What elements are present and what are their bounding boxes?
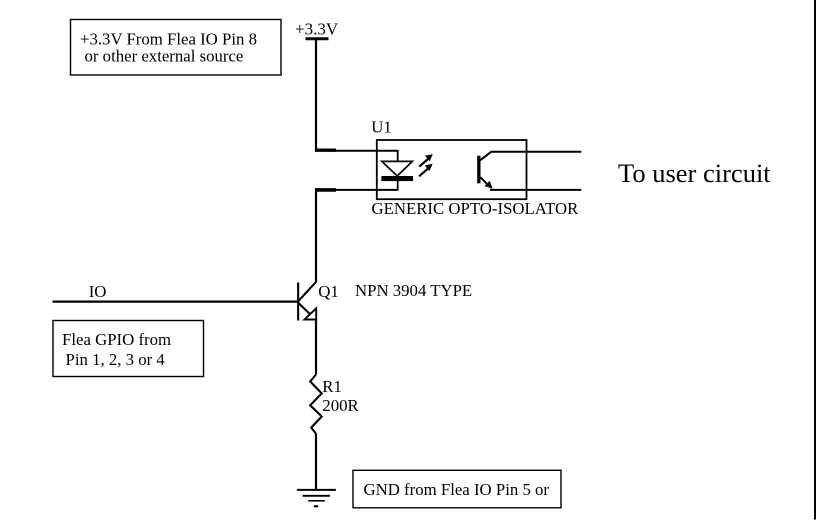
transistor Q1 emitter diagonal xyxy=(298,303,311,315)
U1 reference label xyxy=(371,118,392,137)
wire: opto pin2 down to Q1 collector xyxy=(315,188,317,283)
wire: stub to LED anode (thick elbow) xyxy=(315,148,336,151)
svg-text:NPN 3904 TYPE: NPN 3904 TYPE xyxy=(355,281,472,300)
LED cathode lead xyxy=(397,181,399,191)
page border (right edge) xyxy=(814,0,816,520)
svg-text:IO: IO xyxy=(89,282,107,301)
R1 value 200R xyxy=(322,396,359,415)
wire: opto collector out to user circuit (top) xyxy=(491,151,582,153)
wire: R1 down to ground xyxy=(315,434,317,490)
svg-text:or other external source: or other external source xyxy=(85,46,244,65)
svg-text:Flea GPIO from: Flea GPIO from xyxy=(62,330,171,349)
svg-text:200R: 200R xyxy=(322,396,359,415)
To user circuit label xyxy=(618,158,771,188)
wire: Q1 emitter down to R1 xyxy=(315,320,317,375)
node IO label xyxy=(89,282,107,301)
transistor Q1 emitter open arrowhead xyxy=(305,308,317,319)
LED light arrow 2 xyxy=(419,164,433,177)
svg-text:Pin 1, 2, 3 or 4: Pin 1, 2, 3 or 4 xyxy=(66,350,166,369)
power rail bar xyxy=(306,37,329,40)
phototransistor emitter with arrow xyxy=(480,177,492,188)
LED anode lead xyxy=(397,150,399,162)
transistor Q1 base bar xyxy=(297,283,299,321)
ground xyxy=(297,490,336,506)
svg-text:R1: R1 xyxy=(322,377,342,396)
svg-text:To user circuit: To user circuit xyxy=(618,158,771,188)
svg-text:GENERIC OPTO-ISOLATOR: GENERIC OPTO-ISOLATOR xyxy=(372,199,580,218)
resistor R1 zigzag xyxy=(310,375,322,434)
wire: opto pin2 stub (thick elbow) xyxy=(315,188,336,192)
svg-text:GND from Flea IO Pin 5 or: GND from Flea IO Pin 5 or xyxy=(364,480,550,499)
wire: IO base wire xyxy=(53,301,298,303)
wire: +3.3V down to opto pin1 xyxy=(315,39,317,152)
phototransistor collector xyxy=(480,152,491,161)
LED cathode bar xyxy=(381,176,413,181)
wire: opto pin2 to LED cathode xyxy=(335,189,398,191)
svg-text:+3.3V: +3.3V xyxy=(295,19,339,38)
GENERIC OPTO-ISOLATOR caption xyxy=(372,199,580,218)
R1 reference label xyxy=(322,377,342,396)
op-amp U1 box outline (opto-isolator body) xyxy=(377,140,527,199)
note box: Flea GPIO xyxy=(53,321,204,377)
LED triangle xyxy=(382,161,413,176)
wire: opto emitter out to user circuit (bottom) xyxy=(490,189,581,191)
svg-text:Q1: Q1 xyxy=(318,282,339,301)
note box: GND xyxy=(353,470,561,508)
svg-text:U1: U1 xyxy=(371,118,392,137)
phototransistor base bar xyxy=(477,156,480,184)
wire: to LED anode xyxy=(335,150,398,152)
transistor Q1 collector diagonal xyxy=(298,282,316,301)
NPN 3904 TYPE label xyxy=(355,281,472,300)
note box: +3.3V source xyxy=(71,20,282,76)
Q1 reference label xyxy=(318,282,339,301)
power net +3.3V label xyxy=(295,19,339,38)
LED light arrow 1 xyxy=(419,154,433,167)
